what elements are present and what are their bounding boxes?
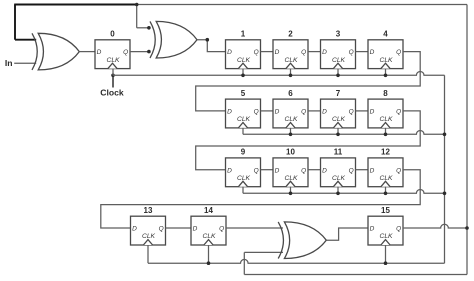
svg-text:14: 14 (204, 206, 213, 215)
svg-text:Q: Q (349, 49, 354, 56)
svg-text:Q: Q (254, 109, 259, 116)
wire XOR4 output to D15 (326, 228, 368, 240)
node XOR2 output corner (206, 38, 210, 42)
wire clock row2 (hops feed vertical) (243, 131, 445, 135)
node clock row1 junction 1 (241, 74, 245, 78)
svg-text:1: 1 (241, 30, 246, 39)
wire FF8 clock drop (385, 128, 387, 134)
wire clock row3 (hops feed vertical) (243, 190, 445, 194)
flip-flop 2 (273, 30, 308, 69)
wire feedback thick left vertical (14, 5, 16, 40)
wire clock row4 (hops feedback riser) (148, 259, 445, 263)
svg-text:6: 6 (288, 89, 293, 98)
svg-text:Clock: Clock (100, 88, 124, 98)
wire feedback bottom horizontal (244, 274, 467, 276)
node clock row3 junction 10 (289, 192, 293, 196)
wire FF6 clock drop (290, 128, 292, 134)
wire XOR1 output to FF0 D (79, 51, 95, 53)
wire FF1 clock drop (242, 69, 244, 76)
wire Q14 to XOR4 top input (226, 227, 283, 229)
wire Q1 to D2 (261, 51, 274, 53)
flip-flop 5 (226, 89, 261, 128)
svg-text:D: D (227, 49, 232, 56)
svg-text:CLK: CLK (237, 116, 251, 123)
flip-flop 1 (226, 30, 261, 69)
svg-text:CLK: CLK (379, 233, 393, 240)
svg-text:Q: Q (349, 167, 354, 174)
xor gate U3 (output xor) (278, 222, 326, 259)
wire branch into XOR2 top input (137, 27, 149, 29)
label Clock (100, 88, 124, 98)
svg-text:D: D (193, 226, 198, 233)
wire Q2 to D3 (308, 51, 321, 53)
svg-text:D: D (322, 49, 327, 56)
node clock row3 junction 12 (384, 192, 388, 196)
svg-text:Q: Q (349, 109, 354, 116)
svg-text:CLK: CLK (284, 57, 298, 64)
wire FF4 clock drop (385, 69, 387, 76)
svg-text:D: D (370, 226, 375, 233)
svg-text:D: D (97, 49, 102, 56)
flip-flop 3 (321, 30, 356, 69)
node clock row1 junction 3 (336, 74, 340, 78)
flip-flop 14 (191, 206, 226, 245)
flip-flop 10 (273, 148, 308, 187)
wire FF13 clock drop (147, 245, 149, 263)
svg-text:D: D (370, 49, 375, 56)
wire FF0 clock drop (112, 69, 114, 76)
flip-flop 12 (368, 148, 403, 187)
node clock row2 junction 6 (289, 133, 293, 137)
node clock chain row3 tap (443, 192, 447, 196)
wire XOR2 output (197, 40, 226, 52)
xor gate U2 (150, 21, 197, 58)
svg-text:D: D (322, 109, 327, 116)
svg-text:10: 10 (286, 148, 295, 157)
svg-text:CLK: CLK (202, 233, 216, 240)
svg-text:D: D (322, 167, 327, 174)
label In (5, 58, 13, 68)
wire FF2 clock drop (290, 69, 292, 76)
wire clock chain vertical (444, 75, 446, 263)
wire FF7 clock drop (337, 128, 339, 134)
flip-flop 15 (368, 206, 403, 245)
wire Q3 to D4 (356, 51, 369, 53)
svg-text:D: D (370, 109, 375, 116)
wire clock stub (112, 75, 114, 87)
node XOR2 bottom input (147, 50, 151, 54)
flip-flop 7 (321, 89, 356, 128)
svg-text:D: D (275, 49, 280, 56)
svg-text:15: 15 (381, 206, 390, 215)
flip-flop 13 (131, 206, 166, 245)
wire Q9 to D10 (261, 169, 274, 171)
svg-text:CLK: CLK (379, 175, 393, 182)
svg-text:Q: Q (301, 109, 306, 116)
node clock source junction (111, 74, 115, 78)
svg-text:CLK: CLK (332, 175, 346, 182)
svg-text:8: 8 (383, 89, 388, 98)
svg-text:2: 2 (288, 30, 293, 39)
flip-flop 0 (95, 30, 130, 69)
wire XOR4 bottom input stub (244, 251, 283, 253)
node XOR2 top input (147, 26, 151, 30)
svg-text:7: 7 (336, 89, 341, 98)
wire Q10 to D11 (308, 169, 321, 171)
svg-text:CLK: CLK (332, 57, 346, 64)
svg-text:Q: Q (396, 109, 401, 116)
svg-text:D: D (275, 167, 280, 174)
wire feedback right vertical (Q15 to top) (466, 5, 468, 275)
svg-text:CLK: CLK (237, 175, 251, 182)
wire Q15 to feedback node (hops clock vertical) (403, 224, 467, 228)
wire FF3 clock drop (337, 69, 339, 76)
node clock row2 junction 7 (336, 133, 340, 137)
svg-text:Q: Q (396, 226, 401, 233)
node clock row4 junction 14 (207, 261, 211, 265)
wire Q12 feed to D13 (101, 170, 420, 228)
wire feedback thick stub into XOR1 top input (15, 39, 36, 41)
wire FF9 clock drop (242, 187, 244, 194)
wire branch down from top feedback (136, 5, 138, 28)
flip-flop 9 (226, 148, 261, 187)
xor gate U1 (32, 33, 79, 70)
svg-text:12: 12 (381, 148, 390, 157)
wire clock row1 (hops feed vertical) (113, 72, 445, 76)
wire Q5 to D6 (261, 110, 274, 112)
flip-flop 6 (273, 89, 308, 128)
svg-text:Q: Q (301, 167, 306, 174)
svg-text:CLK: CLK (379, 57, 393, 64)
svg-text:Q: Q (219, 226, 224, 233)
wire FF14 clock drop (208, 245, 210, 263)
svg-text:Q: Q (396, 49, 401, 56)
wire feedback riser to XOR4 bottom input (243, 252, 245, 274)
svg-text:Q: Q (254, 167, 259, 174)
svg-text:In: In (5, 58, 13, 68)
wire FF11 clock drop (337, 187, 339, 194)
wire FF5 clock drop (242, 128, 244, 134)
svg-text:5: 5 (241, 89, 246, 98)
node clock row4 junction 15 (384, 261, 388, 265)
svg-text:D: D (370, 167, 375, 174)
node clock row1 junction 4 (384, 74, 388, 78)
node clock row3 junction 11 (336, 192, 340, 196)
svg-text:Q: Q (254, 49, 259, 56)
node clock row1 junction 2 (289, 74, 293, 78)
wire Q6 to D7 (308, 110, 321, 112)
wire FF15 clock drop (385, 245, 387, 263)
svg-text:CLK: CLK (284, 116, 298, 123)
wire Q8 feed to D9 (196, 111, 421, 170)
svg-text:0: 0 (110, 30, 115, 39)
svg-text:CLK: CLK (106, 57, 120, 64)
flip-flop 4 (368, 30, 403, 69)
svg-text:D: D (275, 109, 280, 116)
svg-text:CLK: CLK (284, 175, 298, 182)
wire Q0 to XOR2 bottom input (130, 51, 149, 53)
wire feedback top horizontal (node from Q15) (137, 4, 467, 6)
flip-flop 11 (321, 148, 356, 187)
svg-text:Q: Q (396, 167, 401, 174)
svg-text:D: D (132, 226, 137, 233)
wire Q4 feed to D5 (196, 52, 421, 111)
wire Q11 to D12 (356, 169, 369, 171)
svg-text:CLK: CLK (237, 57, 251, 64)
svg-text:11: 11 (334, 148, 343, 157)
svg-text:Q: Q (159, 226, 164, 233)
node clock row2 junction 8 (384, 133, 388, 137)
flip-flop 8 (368, 89, 403, 128)
wire In to XOR1 bottom input (14, 62, 36, 64)
svg-text:9: 9 (241, 148, 246, 157)
node junction top feedback branch (135, 3, 139, 7)
svg-text:13: 13 (144, 206, 153, 215)
svg-text:4: 4 (383, 30, 388, 39)
svg-text:CLK: CLK (332, 116, 346, 123)
svg-text:Q: Q (123, 49, 128, 56)
svg-text:D: D (227, 167, 232, 174)
svg-text:D: D (227, 109, 232, 116)
wire Q13 to D14 (166, 227, 192, 229)
wire feedback thick top segment (14, 4, 137, 6)
node Q15 feedback junction (465, 226, 469, 230)
svg-text:CLK: CLK (142, 233, 156, 240)
svg-text:3: 3 (336, 30, 341, 39)
wire FF10 clock drop (290, 187, 292, 194)
wire Q7 to D8 (356, 110, 369, 112)
wire FF12 clock drop (385, 187, 387, 194)
svg-text:CLK: CLK (379, 116, 393, 123)
node clock chain row2 tap (443, 133, 447, 137)
svg-text:Q: Q (301, 49, 306, 56)
